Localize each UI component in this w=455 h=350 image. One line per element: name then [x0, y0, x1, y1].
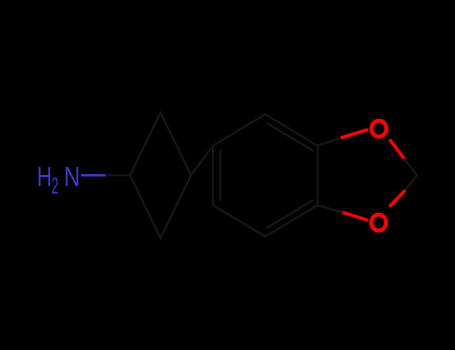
atom label H2N (amine): [37, 162, 80, 200]
svg-text:N: N: [64, 162, 80, 193]
benzene double bond inner line (left vertical edge): [219, 151, 221, 201]
benzene double bond inner line (top-right edge): [268, 123, 313, 150]
svg-text:H: H: [37, 162, 52, 192]
wire: bond top O to CH2 apex (gray half): [405, 159, 417, 175]
wire: bond top O to CH2 apex (red half): [391, 141, 405, 160]
wire: bond N to C1 (blue half): [82, 174, 106, 176]
benzene double bond inner line (bottom-right edge): [268, 200, 313, 227]
benzene ring outline: [213, 114, 318, 236]
atom label O (top oxygen): [372, 121, 387, 137]
wire: bond benzene to top O (red half): [342, 130, 367, 138]
wire: bond C3 to benzene top-left vertex: [191, 146, 213, 176]
wire: bond N to C1 (gray half): [106, 174, 130, 176]
wire: bond bottom O to benzene (red half): [342, 212, 367, 220]
cyclobutane ring (rhombus): [130, 113, 191, 239]
wire: bond bottom O to benzene (gray half): [318, 205, 343, 212]
wire: bond CH2 apex to bottom O (gray half): [404, 175, 417, 191]
wire: bond CH2 apex to bottom O (red half): [391, 191, 405, 206]
svg-text:2: 2: [51, 174, 58, 200]
atom label O (bottom oxygen): [371, 215, 386, 231]
wire: bond benzene to top O (gray half): [318, 138, 343, 146]
